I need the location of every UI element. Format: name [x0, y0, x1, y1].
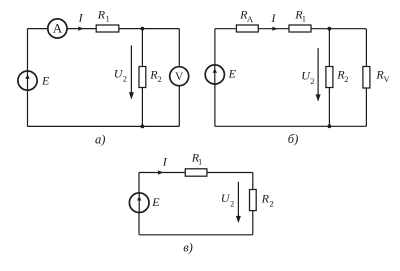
svg-text:A: A	[247, 14, 254, 24]
svg-text:1: 1	[302, 13, 306, 23]
svg-text:I: I	[78, 11, 84, 25]
svg-text:1: 1	[198, 156, 202, 166]
svg-text:в): в)	[183, 240, 193, 254]
svg-text:A: A	[53, 20, 63, 35]
svg-text:2: 2	[270, 199, 274, 209]
svg-text:2: 2	[230, 199, 234, 209]
svg-text:2: 2	[310, 76, 314, 86]
svg-text:I: I	[162, 155, 168, 169]
svg-text:б): б)	[288, 132, 298, 146]
svg-text:2: 2	[123, 74, 127, 84]
svg-text:2: 2	[344, 74, 348, 84]
svg-text:E: E	[41, 73, 50, 87]
svg-text:I: I	[270, 11, 276, 25]
svg-text:1: 1	[106, 13, 110, 23]
svg-text:2: 2	[158, 74, 162, 84]
svg-text:E: E	[151, 195, 160, 209]
svg-text:а): а)	[95, 133, 105, 147]
svg-text:R: R	[97, 8, 106, 22]
svg-text:E: E	[228, 66, 237, 80]
svg-text:V: V	[384, 74, 391, 84]
svg-text:R: R	[261, 192, 270, 206]
svg-text:V: V	[175, 71, 184, 83]
